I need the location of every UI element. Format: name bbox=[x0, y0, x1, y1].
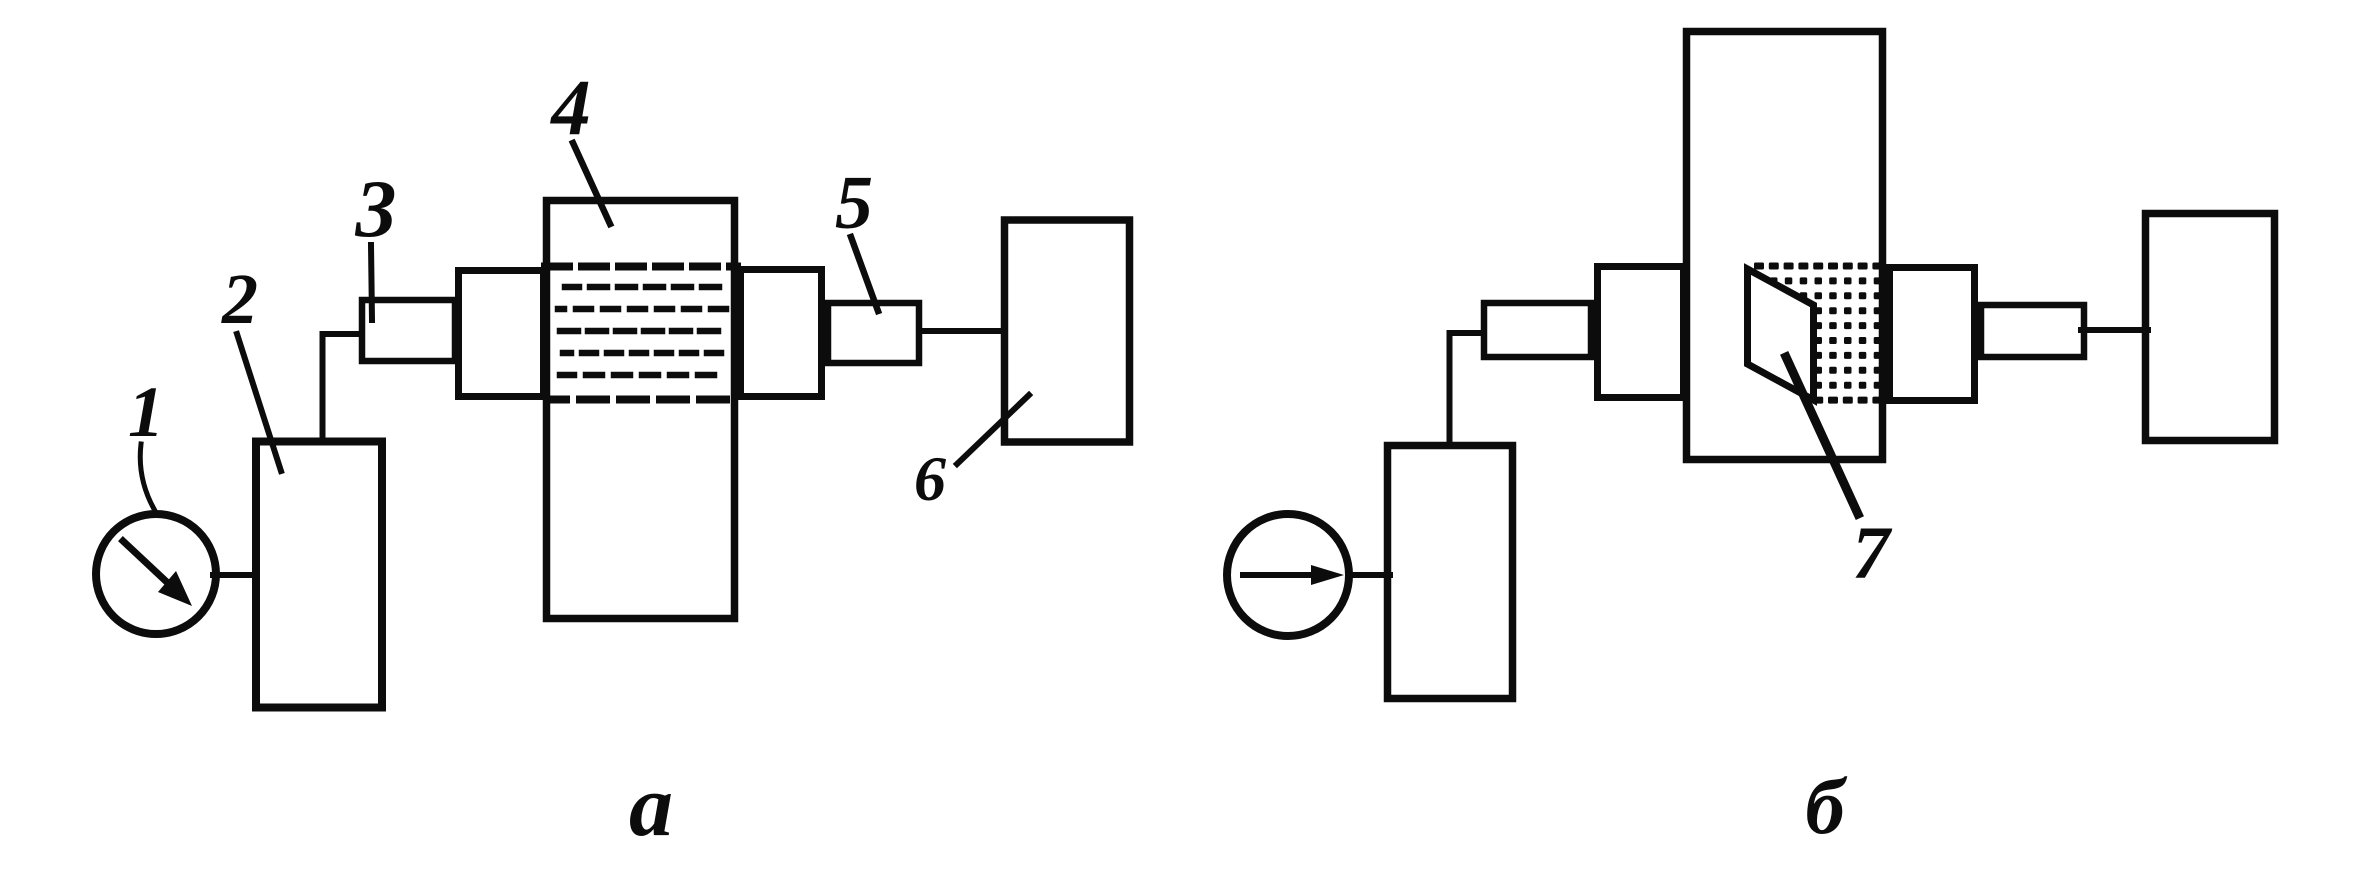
leader line for label 4 bbox=[573, 143, 610, 224]
wire gauge to vessel 2 bbox=[213, 572, 256, 578]
svg-text:4: 4 bbox=[549, 65, 591, 152]
wire right tube to right box (diagram b) bbox=[2081, 327, 2148, 333]
wire gauge G2 to vessel bbox=[1349, 572, 1390, 578]
dotted granular fill right of sample 7 bbox=[1754, 263, 1882, 404]
furnace 4 (tall rectangle) bbox=[547, 201, 735, 619]
dashed filling row 2 inside furnace 4 bbox=[558, 306, 730, 313]
svg-text:б: б bbox=[1805, 764, 1848, 851]
dashed filling row 4 inside furnace 4 bbox=[563, 350, 726, 357]
svg-text:5: 5 bbox=[835, 161, 873, 245]
tube 3 (inlet stub) bbox=[362, 300, 455, 361]
gauge G2 arrow (horizontal) bbox=[1243, 572, 1316, 578]
sample plate 7 (parallelogram) bbox=[1748, 269, 1814, 400]
dashed top boundary of tube bore inside furnace 4 bbox=[545, 263, 737, 271]
tube 5 (outlet stub) bbox=[828, 303, 919, 363]
leader line for label 6 bbox=[957, 395, 1029, 464]
wire vessel 2 top to tube 3 (vertical) bbox=[323, 334, 360, 441]
wire tube 5 to box 6 bbox=[919, 328, 1005, 334]
svg-text:2: 2 bbox=[221, 259, 258, 339]
dashed filling row 3 inside furnace 4 bbox=[560, 328, 728, 335]
leader line for label 3 bbox=[371, 245, 372, 320]
svg-text:3: 3 bbox=[355, 163, 397, 254]
leader line for label 1 (curved) bbox=[140, 444, 154, 509]
left tube stub (diagram b) bbox=[1484, 303, 1591, 357]
right box (diagram b) bbox=[2146, 214, 2275, 441]
gauge G2 (manometer circle) bbox=[1227, 514, 1349, 636]
vessel 2 (rectangle) bbox=[256, 442, 382, 708]
svg-text:a: a bbox=[629, 758, 673, 855]
right flange block of furnace a bbox=[741, 270, 822, 397]
gauge G1 needle arrow bbox=[123, 541, 170, 585]
vessel (rectangle, diagram b) bbox=[1388, 446, 1513, 699]
leader line for label 7 bbox=[1786, 357, 1858, 514]
furnace (tall rectangle, diagram b) bbox=[1687, 32, 1883, 460]
box 6 (right rectangle) bbox=[1005, 220, 1130, 442]
leader line for label 2 bbox=[237, 334, 281, 471]
leader line for label 5 bbox=[851, 237, 878, 311]
left flange block of furnace a bbox=[459, 271, 544, 397]
left flange block (diagram b) bbox=[1598, 267, 1684, 398]
dashed filling row 1 inside furnace 4 bbox=[565, 284, 727, 291]
gauge G1 (manometer circle) bbox=[96, 514, 216, 634]
right tube stub (diagram b) bbox=[1981, 305, 2084, 357]
wire vessel top to left tube (diagram b) bbox=[1450, 333, 1485, 445]
svg-text:6: 6 bbox=[914, 443, 946, 514]
right flange block (diagram b) bbox=[1890, 268, 1975, 401]
svg-text:1: 1 bbox=[128, 372, 164, 452]
dashed filling row 5 inside furnace 4 bbox=[560, 372, 724, 379]
dashed bottom boundary of tube bore inside furnace 4 bbox=[548, 396, 737, 404]
svg-text:7: 7 bbox=[1852, 512, 1892, 595]
